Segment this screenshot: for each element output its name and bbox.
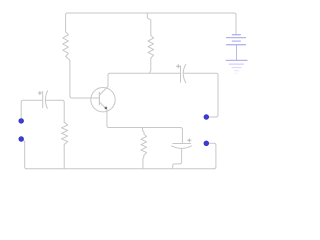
- emitter rail (emitter to R3 and C2): [107, 126, 182, 144]
- capacitor C1 flat plate: [42, 91, 44, 107]
- capacitor C1 plus sign: [38, 91, 41, 94]
- wire C1 to R4 top: [46, 100, 64, 122]
- node terminal lower-right: [204, 141, 209, 146]
- capacitor C2 curved plate: [172, 146, 192, 149]
- wire R4 bottom to ground rail: [63, 144, 65, 168]
- capacitor C2 flat plate: [173, 143, 191, 145]
- node terminal upper-left: [19, 119, 24, 124]
- wire C2 bottom dogleg to ground rail: [173, 148, 182, 168]
- wire C3 to upper-right terminal: [183, 73, 218, 117]
- ground rail (bottom): [26, 168, 214, 170]
- transistor Q1 emitter lead and wire to emitter rail: [99, 102, 107, 126]
- wire R2 top branch (jog from top rail): [147, 13, 151, 35]
- battery V1 negative lead: [236, 45, 238, 61]
- battery V1 plates: [227, 35, 246, 61]
- capacitor C3 plus sign: [177, 65, 180, 68]
- resistor R2: [148, 35, 154, 58]
- wire lower-left terminal to ground rail: [21, 139, 27, 169]
- resistor R4: [62, 122, 68, 144]
- transistor Q1 body: [91, 88, 115, 112]
- wire R2 bottom to collector rail: [149, 58, 151, 73]
- capacitor C3 flat plate: [180, 66, 182, 82]
- wire lower-right terminal to ground rail: [206, 143, 216, 169]
- capacitor C2 plus sign: [188, 139, 191, 142]
- ground symbol (fading bars): [226, 60, 247, 73]
- resistor R1: [63, 32, 69, 57]
- transistor Q1 collector lead: [99, 75, 108, 95]
- wire top rail with R1 branch and battery stub: [66, 13, 236, 34]
- wire upper-left terminal to C1: [21, 100, 42, 118]
- transistor Q1 emitter arrow dot: [105, 107, 108, 110]
- node terminal lower-left: [19, 137, 24, 142]
- node terminal upper-right: [204, 115, 209, 120]
- transistor Q1 base bar: [98, 92, 100, 104]
- resistor R3: [141, 134, 147, 156]
- wire R3 bottom to ground rail: [142, 155, 145, 169]
- collector rail (left part, to C3): [108, 73, 181, 75]
- capacitor C3 curved plate: [183, 64, 186, 83]
- wire R3 top branch: [143, 128, 145, 134]
- capacitor C1 curved plate: [45, 91, 47, 109]
- wire R1 bottom to base of Q1: [66, 56, 100, 98]
